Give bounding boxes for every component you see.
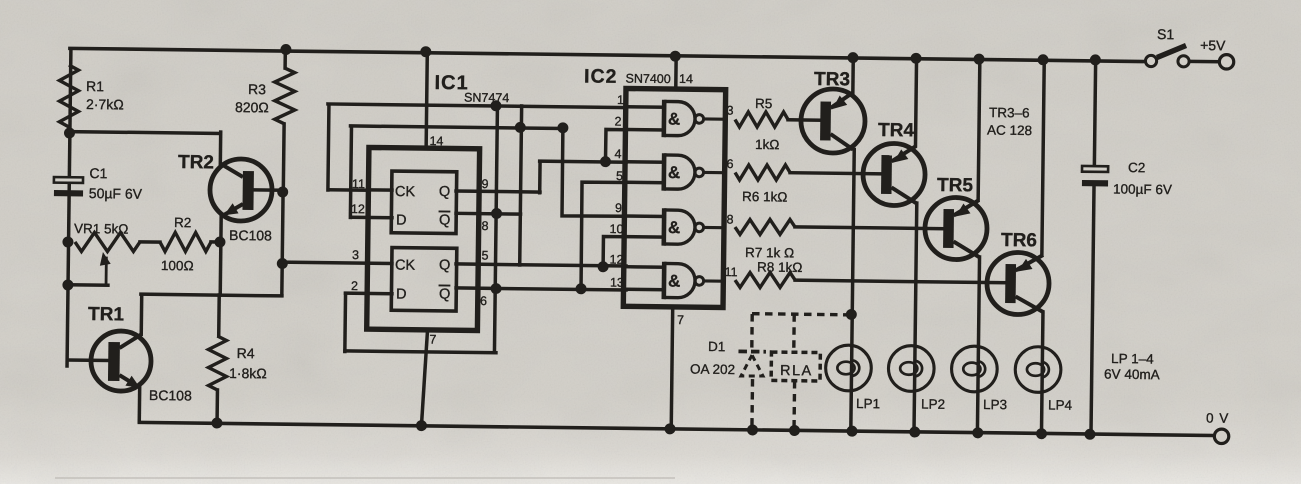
svg-text:0 V: 0 V [1206, 411, 1229, 426]
svg-text:Q: Q [439, 287, 450, 303]
FF1 Qbar overbar [439, 210, 449, 212]
wire pin 2 feedback riser [343, 293, 347, 351]
svg-text:CK: CK [395, 184, 416, 200]
svg-text:6V 40mA: 6V 40mA [1104, 367, 1160, 383]
svg-text:R3: R3 [248, 81, 266, 97]
node wiper junction [63, 280, 73, 290]
wire IC1 pin 14 to rail [426, 52, 427, 147]
resistor R4 [217, 295, 221, 336]
svg-text:TR3–6: TR3–6 [989, 105, 1030, 120]
svg-text:LP3: LP3 [983, 397, 1007, 412]
svg-text:IC2: IC2 [584, 65, 618, 87]
node mesh dot a [515, 122, 525, 132]
node LP2 0V junction [910, 427, 920, 437]
node TR3 rail junction [848, 53, 858, 63]
node R1 bottom junction [64, 128, 74, 138]
node TR2 base junction [278, 187, 288, 197]
resistor R2 [160, 232, 211, 252]
wire FF2 Qbar to pin 6 [456, 288, 626, 290]
wire vertical x496 [494, 106, 497, 352]
svg-text:11: 11 [724, 265, 737, 279]
svg-text:1: 1 [617, 93, 624, 107]
svg-text:R6 1kΩ: R6 1kΩ [742, 189, 788, 205]
wire dashed D1 branch upper [750, 314, 754, 348]
wire TR4 collector to LP2 [914, 203, 917, 432]
wire TR4 emitter to +5V rail [915, 58, 916, 146]
wire riser x603 to IC2 pin10 [603, 237, 626, 267]
resistor R1 [59, 65, 79, 127]
svg-text:Q: Q [439, 258, 450, 274]
node LP3 0V junction [973, 428, 983, 438]
wire IC2 pin 7 to 0V rail [671, 307, 672, 428]
svg-text:&: & [668, 272, 681, 291]
resistor R3 [283, 49, 287, 68]
op IC1 SN7474 outer box [367, 147, 480, 330]
svg-text:D: D [396, 212, 407, 228]
svg-text:&: & [668, 110, 681, 129]
wire feedback under IC1 [345, 351, 496, 353]
gate U2b NAND [626, 160, 664, 164]
svg-text:9: 9 [615, 201, 622, 215]
svg-text:TR5: TR5 [937, 175, 974, 196]
potentiometer VR1 5k [75, 232, 140, 252]
svg-text:+5V: +5V [1200, 37, 1226, 53]
svg-text:TR6: TR6 [1001, 230, 1037, 251]
node mesh dot b [558, 123, 568, 133]
svg-text:LP4: LP4 [1048, 397, 1073, 412]
svg-text:SN7474: SN7474 [464, 91, 509, 106]
capacitor C2 [1094, 60, 1095, 166]
node relay tap on TR3 collector [846, 309, 856, 319]
svg-text:&: & [668, 163, 681, 182]
svg-text:5: 5 [481, 249, 488, 263]
svg-text:RLA: RLA [780, 363, 813, 379]
svg-text:C2: C2 [1128, 160, 1145, 175]
svg-text:R8 1kΩ: R8 1kΩ [757, 260, 803, 276]
resistor R7 [735, 219, 795, 235]
svg-text:9: 9 [481, 177, 488, 191]
svg-text:Q: Q [439, 184, 450, 200]
wire IC1 pin 12 [351, 215, 392, 219]
svg-text:TR3: TR3 [814, 69, 850, 90]
wire TR5 collector to LP3 [977, 257, 979, 433]
svg-text:R5: R5 [755, 96, 772, 111]
svg-text:BC108: BC108 [149, 387, 192, 404]
svg-text:10: 10 [609, 222, 623, 236]
svg-text:R1: R1 [86, 78, 104, 94]
transistor TR5 AC128 [925, 197, 988, 260]
svg-text:5: 5 [616, 169, 623, 183]
node R2/TR2 emitter junction [215, 237, 225, 247]
svg-text:Q: Q [439, 213, 450, 229]
gate U2a NAND [626, 105, 664, 109]
node C2 0V junction [1085, 429, 1095, 439]
svg-text:AC 128: AC 128 [987, 123, 1032, 139]
wire VR1 wiper to left column [68, 283, 108, 287]
lamp LP1 [825, 345, 871, 391]
resistor R6 [735, 164, 790, 180]
wire IC1 pin 11 [369, 188, 392, 192]
svg-text:1kΩ: 1kΩ [755, 137, 780, 152]
lamp LP3 [951, 346, 997, 392]
svg-text:50µF 6V: 50µF 6V [89, 185, 143, 202]
wire riser x606 to IC2 pin2 [605, 129, 625, 161]
svg-text:C1: C1 [89, 165, 107, 181]
wire left column [67, 49, 71, 366]
svg-text:R2: R2 [174, 215, 191, 230]
svg-text:820Ω: 820Ω [235, 99, 269, 115]
svg-text:100µF 6V: 100µF 6V [1113, 181, 1172, 197]
node LP4 0V junction [1036, 429, 1046, 439]
wire dashed relay coil branch upper [792, 314, 796, 352]
wire bottom 0V rail [139, 422, 1222, 435]
svg-text:BC108: BC108 [229, 227, 272, 244]
svg-text:LP1: LP1 [856, 396, 880, 411]
wire vertical x562 to IC2 pin9 [562, 128, 627, 217]
resistor R8 [735, 272, 795, 288]
wire dashed relay top horizontal [752, 314, 851, 315]
node mesh dot e [491, 284, 501, 294]
wire to IC1 pin 3 [282, 262, 392, 263]
svg-text:1·8kΩ: 1·8kΩ [229, 365, 267, 381]
node TR4 rail junction [911, 53, 921, 63]
wire TR3 emitter to +5V rail [851, 58, 855, 93]
wire TR1 collector horizontal [141, 294, 282, 296]
svg-text:CK: CK [395, 257, 416, 273]
svg-text:8: 8 [726, 213, 733, 227]
wire dashed D1 branch lower [750, 379, 754, 430]
svg-text:S1: S1 [1157, 26, 1175, 42]
transistor TR1 BC108 [91, 331, 152, 392]
node pin3 tap [277, 258, 287, 268]
node 0V terminal [1214, 429, 1229, 444]
wire TR6 collector to LP4 [1041, 312, 1042, 434]
svg-text:TR2: TR2 [178, 152, 214, 173]
FF2 Qbar overbar [439, 284, 449, 286]
node TR5 rail junction [974, 54, 984, 64]
op IC2 SN7400 outer box [623, 88, 725, 307]
node C2 rail junction [1090, 55, 1100, 65]
node RLA 0V junction [789, 425, 799, 435]
wire IC1 pin 7 to 0V rail [421, 330, 427, 425]
flip-flop FF2 box [391, 248, 457, 311]
svg-text:LP2: LP2 [921, 397, 945, 412]
resistor R5 [735, 111, 788, 127]
svg-text:14: 14 [429, 134, 443, 148]
lamp LP2 [888, 345, 934, 391]
node TR6 rail junction [1038, 55, 1048, 65]
wire riser x581 to IC2 pin5 [581, 182, 626, 289]
wire TR6 emitter to +5V rail [1042, 60, 1044, 255]
wire TR3 collector to LP1 [851, 149, 854, 431]
svg-text:2: 2 [351, 279, 358, 293]
node mesh dot d [491, 208, 501, 218]
diode D1 OA202 [738, 349, 765, 353]
svg-text:3: 3 [352, 248, 359, 262]
switch S1 [1145, 55, 1156, 66]
node D1 0V junction [747, 425, 757, 435]
node R4 bottom on 0V rail [212, 418, 222, 428]
svg-text:6: 6 [480, 294, 487, 308]
svg-text:TR4: TR4 [878, 120, 915, 141]
wire R1 bottom to TR2 collector riser [70, 132, 220, 134]
wire IC1 pin 2 stub [345, 291, 391, 295]
capacitor C1 [54, 177, 83, 183]
svg-text:7: 7 [677, 313, 684, 327]
transistor TR4 AC128 [863, 143, 926, 206]
wire dashed relay coil branch lower [792, 381, 796, 430]
svg-text:3: 3 [726, 104, 733, 118]
wire riser x540 [538, 161, 542, 192]
flip-flop FF1 box [391, 171, 457, 233]
svg-text:D: D [396, 287, 407, 303]
gate U2c NAND [626, 214, 664, 218]
node mesh dot g [598, 262, 608, 272]
node mesh dot h [576, 284, 586, 294]
VR1 wiper arrow [105, 258, 108, 285]
svg-text:VR1 5kΩ: VR1 5kΩ [74, 221, 129, 237]
wire FF1 Qbar to pin 8 [456, 212, 520, 216]
svg-text:6: 6 [726, 157, 733, 171]
transistor TR2 BC108 [210, 159, 273, 222]
node mesh dot f [600, 157, 610, 167]
wire top +5V rail [70, 48, 1151, 61]
wire FF1 Q to pin 9 [456, 191, 540, 192]
transistor TR6 AC128 [987, 252, 1050, 315]
svg-text:R7 1k Ω: R7 1k Ω [745, 245, 794, 261]
svg-text:LP 1–4: LP 1–4 [1111, 351, 1154, 367]
node C1/VR1 junction [63, 237, 73, 247]
svg-text:2·7kΩ: 2·7kΩ [86, 96, 124, 112]
transistor TR3 AC128 [801, 89, 866, 154]
svg-text:TR1: TR1 [88, 304, 125, 325]
node LP1 0V junction [847, 426, 857, 436]
svg-text:14: 14 [679, 72, 693, 86]
node R3 top on rail [281, 44, 291, 54]
wire FF2 Q to pin 5 [456, 264, 626, 266]
wire net pin11/CK2 top horizontal [328, 104, 626, 108]
wire TR5 emitter to +5V rail [978, 59, 980, 200]
wire IC2 pin 14 to rail [674, 56, 678, 88]
wire pin 12 riser [350, 127, 351, 218]
wire to IC2 pin4 [540, 161, 626, 162]
relay coil RLA [771, 352, 820, 381]
gate U2d NAND [626, 265, 664, 269]
svg-text:OA 202: OA 202 [690, 361, 735, 377]
wire R3/TR2 base down to pin3 tap [282, 192, 283, 295]
svg-text:100Ω: 100Ω [161, 258, 194, 273]
svg-text:4: 4 [614, 147, 621, 161]
svg-text:8: 8 [481, 219, 488, 233]
wire vertical x520 [520, 106, 522, 265]
node +5V terminal [1219, 55, 1234, 70]
svg-text:12: 12 [609, 253, 623, 267]
svg-text:12: 12 [351, 202, 365, 216]
lamp LP4 [1015, 346, 1061, 392]
svg-text:R4: R4 [237, 345, 255, 361]
node mesh dot c [491, 101, 501, 111]
svg-text:13: 13 [610, 276, 624, 290]
svg-text:&: & [668, 218, 681, 237]
wire pin 11 riser [328, 104, 329, 189]
wire net pin12 horizontal [350, 126, 562, 129]
svg-text:D1: D1 [708, 339, 725, 354]
svg-text:SN7400: SN7400 [626, 71, 671, 86]
svg-text:2: 2 [614, 114, 621, 128]
svg-text:7: 7 [429, 333, 436, 347]
